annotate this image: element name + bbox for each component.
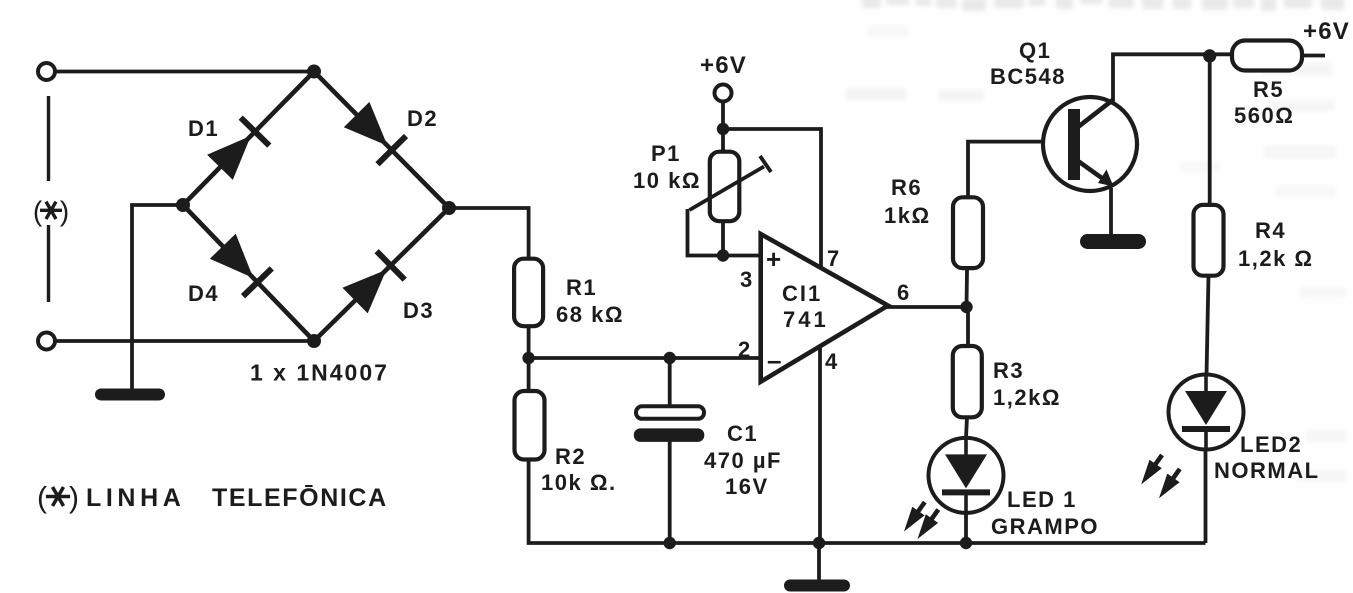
LED LED1 bbox=[929, 438, 1004, 513]
op-amp CI1 741 bbox=[761, 234, 888, 382]
ground Q1 emitter bbox=[1080, 234, 1146, 249]
node bridge right bbox=[442, 201, 456, 215]
wire +6V junction to pin7 bbox=[723, 129, 821, 269]
light arrows LED1 bbox=[904, 502, 938, 539]
wire LED2 bottom to bus bbox=[1204, 449, 1208, 543]
svg-text:BC548: BC548 bbox=[990, 64, 1066, 89]
svg-text:7: 7 bbox=[827, 246, 841, 271]
diode D2 bbox=[344, 102, 406, 164]
wire R4 bottom to LED2 bbox=[1207, 276, 1209, 376]
wire junction row pin2 bbox=[529, 356, 761, 360]
resistor R2 bbox=[515, 391, 545, 460]
svg-text:10 kΩ: 10 kΩ bbox=[633, 168, 701, 193]
wire +6V terminal to P1 bbox=[721, 100, 725, 152]
label R4 bbox=[1238, 218, 1314, 271]
label caption LINHA TELEFONICA bbox=[37, 481, 388, 514]
label P1 bbox=[633, 141, 701, 193]
wire +6V junction down to R4 bbox=[1208, 54, 1212, 206]
terminal +6V supply bbox=[715, 85, 732, 102]
ground bridge bbox=[95, 389, 165, 401]
wire R1 bottom to junction bbox=[527, 326, 531, 392]
wire bottom terminal to bridge bottom bbox=[54, 339, 314, 343]
svg-text:3: 3 bbox=[740, 267, 754, 292]
svg-text:470 µF: 470 µF bbox=[704, 448, 782, 473]
svg-text:2: 2 bbox=[738, 337, 752, 362]
svg-text:+: + bbox=[766, 244, 781, 274]
label R5 bbox=[1234, 77, 1294, 128]
svg-text:NORMAL: NORMAL bbox=[1214, 458, 1320, 483]
resistor R1 bbox=[514, 259, 543, 327]
svg-text:D1: D1 bbox=[188, 116, 219, 141]
node bridge top bbox=[307, 65, 321, 79]
resistor R5 bbox=[1232, 41, 1302, 71]
svg-text:D4: D4 bbox=[188, 281, 219, 306]
ground main bbox=[784, 580, 850, 592]
svg-text:LED2: LED2 bbox=[1240, 432, 1302, 457]
node P1 bottom junction bbox=[717, 249, 729, 261]
svg-text:R2: R2 bbox=[555, 444, 586, 469]
label C1 bbox=[704, 421, 782, 499]
wire bridge right node to R1 bbox=[449, 208, 529, 260]
wire bridge edge top-right bbox=[314, 72, 449, 209]
wire R5 to +6V bbox=[1302, 54, 1325, 58]
label LED2 bbox=[1214, 432, 1320, 483]
wire ground stem main bbox=[817, 543, 821, 581]
svg-text:560Ω: 560Ω bbox=[1234, 103, 1294, 128]
svg-text:R1: R1 bbox=[566, 275, 597, 300]
light arrows LED2 bbox=[1141, 455, 1180, 498]
diode D4 bbox=[210, 234, 272, 296]
label R3 bbox=[993, 358, 1061, 410]
wire op-amp pin4 to ground bus bbox=[818, 345, 822, 543]
LED LED2 bbox=[1169, 375, 1244, 450]
svg-text:R5: R5 bbox=[1253, 77, 1284, 102]
resistor R4 bbox=[1194, 205, 1224, 276]
svg-text:10k Ω.: 10k Ω. bbox=[541, 470, 617, 495]
capacitor C1 bbox=[634, 406, 705, 442]
svg-text:): ) bbox=[69, 481, 79, 514]
diode D1 bbox=[207, 118, 269, 180]
svg-text:68 kΩ: 68 kΩ bbox=[556, 302, 624, 327]
label Q1 bbox=[990, 38, 1066, 89]
svg-text:+6V: +6V bbox=[700, 52, 747, 79]
label R2 bbox=[541, 444, 617, 495]
label R1 bbox=[556, 275, 624, 327]
svg-text:P1: P1 bbox=[651, 141, 681, 166]
svg-text:1,2kΩ: 1,2kΩ bbox=[993, 385, 1061, 410]
wire R6 stems and base wire bbox=[967, 197, 969, 307]
svg-text:–: – bbox=[767, 345, 781, 375]
wire P1 wiper bracket bbox=[688, 209, 724, 256]
wire top terminal to bridge top bbox=[54, 70, 314, 74]
resistor R6 bbox=[953, 197, 983, 268]
svg-text:C1: C1 bbox=[727, 421, 758, 446]
wire Q1 collector to +6V rail bbox=[1113, 54, 1232, 101]
svg-text:16V: 16V bbox=[725, 474, 769, 499]
svg-text:741: 741 bbox=[783, 307, 829, 332]
svg-text:TELEFŌNICA: TELEFŌNICA bbox=[212, 484, 388, 512]
line telephone pair (broken by star) bbox=[47, 96, 50, 181]
terminal input bottom bbox=[38, 333, 55, 350]
wire LED1 bottom to bus bbox=[964, 513, 968, 543]
node bus C1 bbox=[664, 537, 676, 549]
transistor Q1 bbox=[1043, 97, 1137, 191]
node collector junction bbox=[1203, 49, 1216, 62]
node bus LED1 bbox=[960, 537, 972, 549]
diode D3 bbox=[342, 251, 404, 313]
wire bridge edge top-left bbox=[183, 72, 314, 206]
wire op-amp output to node 6 bbox=[886, 305, 967, 309]
svg-text:4: 4 bbox=[825, 349, 839, 374]
svg-text:LED 1: LED 1 bbox=[1007, 487, 1077, 512]
svg-text:CI1: CI1 bbox=[782, 281, 822, 306]
wire R3 stems bbox=[966, 307, 970, 347]
wire P1 bottom to pin3 bbox=[721, 221, 725, 256]
wire Q1 emitter stem bbox=[1109, 188, 1113, 238]
svg-text:1 x 1N4007: 1 x 1N4007 bbox=[250, 360, 389, 386]
node star marker (asterisk) bbox=[33, 195, 69, 226]
svg-text:R6: R6 bbox=[891, 175, 922, 200]
potentiometer P1 bbox=[690, 152, 772, 222]
svg-text:6: 6 bbox=[897, 280, 911, 305]
svg-text:1,2k Ω: 1,2k Ω bbox=[1238, 246, 1314, 271]
svg-text:R4: R4 bbox=[1255, 218, 1286, 243]
svg-text:(: ( bbox=[37, 481, 47, 514]
svg-text:1kΩ: 1kΩ bbox=[884, 203, 931, 228]
terminal input top bbox=[38, 63, 55, 80]
node R1-C1-pin2 junction bbox=[522, 352, 534, 364]
node C1 top junction bbox=[664, 352, 676, 364]
svg-text:LINHA: LINHA bbox=[86, 484, 185, 512]
svg-text:+6V: +6V bbox=[1303, 18, 1350, 45]
svg-text:GRAMPO: GRAMPO bbox=[991, 514, 1099, 539]
node output 6 bbox=[960, 301, 972, 313]
label LED1 bbox=[991, 487, 1099, 539]
svg-text:D3: D3 bbox=[403, 298, 434, 323]
svg-text:R3: R3 bbox=[993, 358, 1024, 383]
svg-text:D2: D2 bbox=[407, 106, 438, 131]
wire R2 bottom to bus bbox=[529, 460, 1206, 544]
resistor R3 bbox=[953, 346, 982, 417]
wire C1 stems bbox=[668, 358, 672, 407]
wire bridge edge bottom-left bbox=[183, 205, 314, 341]
node bridge left bbox=[176, 198, 190, 212]
node bus ground bbox=[813, 537, 825, 549]
label R6 bbox=[884, 175, 931, 228]
wire bridge edge bottom-right bbox=[314, 208, 449, 341]
node +6V junction bbox=[717, 123, 729, 135]
svg-text:Q1: Q1 bbox=[1019, 38, 1051, 63]
wire bridge left node to ground stem bbox=[132, 205, 183, 390]
node bridge bottom bbox=[307, 334, 321, 348]
